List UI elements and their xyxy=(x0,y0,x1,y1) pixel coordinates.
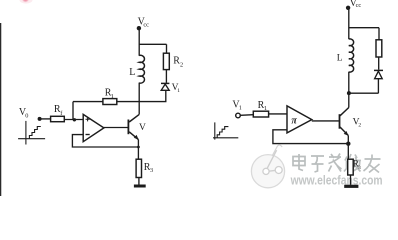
op-amp U2 (right) xyxy=(287,106,312,133)
svg-text:3: 3 xyxy=(150,167,153,174)
node Vcc label (left) xyxy=(138,17,150,29)
svg-text:cc: cc xyxy=(356,2,362,9)
wire L to collector node xyxy=(138,83,140,115)
svg-text:L: L xyxy=(337,54,343,64)
wire noninverting input xyxy=(64,119,83,121)
wire emitter down xyxy=(137,139,139,159)
wire Vcc down (right) xyxy=(348,10,350,40)
label R1 xyxy=(105,88,114,100)
label Rf xyxy=(54,104,63,117)
wire op-amp output to base (right) xyxy=(312,120,339,122)
wire junction horizontal (R1 feedback rail) xyxy=(73,90,166,101)
wire down to clamp resistor xyxy=(378,28,380,40)
resistor (clamp, right) xyxy=(376,40,382,57)
node input terminal dot xyxy=(38,117,42,121)
resistor R2 xyxy=(163,53,169,69)
svg-text:0: 0 xyxy=(25,113,28,120)
waveform icon (right staircase) xyxy=(213,122,238,139)
svg-text:V: V xyxy=(139,123,146,133)
node emitter-feedback junction xyxy=(137,146,140,149)
label V1 input (right) xyxy=(232,99,242,111)
wire diode to junction (right) xyxy=(377,79,379,93)
waveform icon (left staircase) xyxy=(18,121,45,145)
label R3 (right) xyxy=(353,159,361,171)
watermark logo circle xyxy=(251,145,284,188)
node Vcc label (right) xyxy=(350,0,362,9)
inductor L (left) xyxy=(139,55,144,83)
wire noninverting input (right) xyxy=(269,113,287,115)
wire Vcc vertical down xyxy=(138,30,140,56)
label V0 input xyxy=(19,107,29,119)
wire inverting input feedback loop (right) xyxy=(273,130,348,144)
svg-text:1: 1 xyxy=(177,88,180,94)
node junction dot at input xyxy=(73,118,76,121)
label R2 xyxy=(173,56,183,69)
node input terminal (right, open) xyxy=(236,113,241,118)
inductor L (right) xyxy=(349,39,354,72)
label V2 xyxy=(353,117,362,128)
wire L to collector (right) xyxy=(348,72,350,108)
transistor V (left) xyxy=(128,114,139,139)
wire emitter down (right) xyxy=(347,135,349,159)
supply node dot (left Vcc) xyxy=(137,26,141,30)
wire tee to clamp branch (right) xyxy=(349,27,379,29)
wire R2 to diode xyxy=(165,70,167,83)
diode V1 (zener clamp) xyxy=(161,83,169,90)
wire R3 to ground (right) xyxy=(350,175,352,185)
ground (right) xyxy=(344,185,358,188)
wire down to R2 xyxy=(166,44,168,53)
svg-text:www.elecfans.com: www.elecfans.com xyxy=(290,174,383,188)
resistor R3 (left) xyxy=(136,159,141,177)
node feedback-emitter junction dot xyxy=(346,142,350,146)
svg-text:1: 1 xyxy=(239,105,242,112)
wire terminal to Rf xyxy=(41,118,50,120)
wire op-amp output to base xyxy=(104,127,128,129)
svg-text:1: 1 xyxy=(111,93,114,100)
label R3 (left) xyxy=(144,162,153,174)
wire tee to R2 branch xyxy=(139,43,166,45)
svg-text:3: 3 xyxy=(358,165,361,171)
left page border line xyxy=(0,23,2,196)
diode (clamp, right) xyxy=(374,70,383,78)
label R1 (right) xyxy=(258,100,267,112)
node junction dot (right) xyxy=(347,91,351,95)
supply node dot (right Vcc) xyxy=(346,6,350,10)
wire resistor to diode (right) xyxy=(378,57,380,70)
svg-text:L: L xyxy=(129,67,135,78)
label V1 xyxy=(172,83,181,94)
ground (left) xyxy=(134,185,146,188)
resistor R1 (feedback) xyxy=(103,99,117,105)
wire terminal to R1 (right) xyxy=(240,114,253,117)
resistor R3 (right) xyxy=(348,159,354,175)
wire R3 to ground xyxy=(138,178,140,185)
watermark text 电子发烧友 (pseudo-glyph strokes) xyxy=(293,154,381,173)
svg-text:1: 1 xyxy=(264,105,267,112)
pink scan smudge top-left xyxy=(20,0,33,4)
wire junction horizontal (right) xyxy=(349,92,379,94)
svg-text:π: π xyxy=(291,115,297,126)
svg-text:2: 2 xyxy=(180,61,183,68)
resistor R1 (right input) xyxy=(253,111,268,117)
resistor Rf (input) xyxy=(51,116,65,121)
wire inverting input xyxy=(72,135,138,147)
svg-text:cc: cc xyxy=(143,22,149,29)
transistor V2 xyxy=(340,108,349,136)
op-amp U1 (left) xyxy=(83,114,104,141)
svg-text:2: 2 xyxy=(358,123,361,129)
wire input node up to R1 rail xyxy=(72,102,74,120)
